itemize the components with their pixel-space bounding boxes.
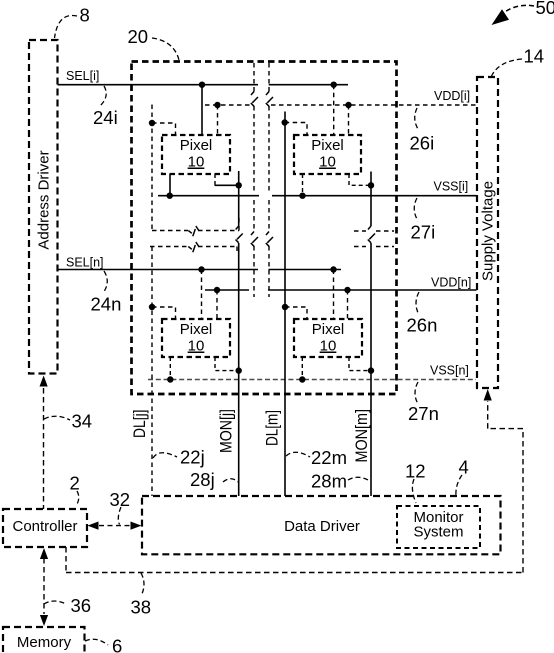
svg-text:36: 36 [71,595,92,616]
svg-text:28m: 28m [311,471,347,492]
label 20 leader [152,38,179,60]
row-break divider line lower [150,247,394,255]
address driver box 8 [29,40,58,374]
svg-text:Address Driver: Address Driver [36,150,53,249]
break symbol channel left lower [251,232,258,247]
break symbol MON[m] [368,226,375,243]
svg-text:Memory: Memory [17,634,72,651]
node VDD[n] pixel3 junction [214,287,220,293]
wire column-break channel left [253,63,255,297]
wire P4 MON elbow [349,357,371,371]
svg-text:DL[j]: DL[j] [131,410,149,439]
label 24n leader [103,271,107,293]
svg-text:14: 14 [524,46,545,67]
node VSS[n] pixel4 junction [299,376,305,382]
node DL[m] pixel4 junction [282,304,288,310]
node MON[j] pixel3 junction [236,367,242,373]
svg-text:34: 34 [72,411,93,432]
wire P4 SEL connector [333,270,335,320]
wire P4 VSS connector [301,357,303,380]
wire P2 MON elbow [349,174,371,185]
label 36 leader [44,601,66,604]
wire SEL[i] [58,84,349,86]
svg-text:System: System [413,524,463,541]
memory box 6 [3,627,85,653]
svg-text:Pixel: Pixel [311,137,344,154]
break symbol channel right upper [266,92,273,107]
svg-text:22j: 22j [180,447,205,468]
node SEL[n] pixel3 junction [198,266,204,272]
break symbol divider upper [188,226,199,236]
node SEL[i] pixel2 junction [331,82,337,88]
label 34 leader [44,416,70,420]
label 32 leader [118,507,121,525]
node VDD[i] pixel1 junction [214,102,220,108]
wire 36 controller-memory [40,548,48,626]
monitor system box 4 [397,506,480,548]
svg-text:Supply Voltage: Supply Voltage [480,181,497,281]
svg-text:8: 8 [80,5,90,26]
label 50 leader arrow [492,5,535,25]
wire 38 feedback path [66,401,523,573]
svg-text:DL[m]: DL[m] [264,410,282,446]
svg-text:6: 6 [112,636,122,653]
label 12 leader [412,479,416,503]
node VSS[i] pixel2 junction [299,193,305,199]
svg-text:24n: 24n [91,294,122,315]
wire 38 arrowhead into supply [484,389,492,401]
wire P3 VSS connector [169,357,171,380]
wire P2 VDD connector [348,105,350,135]
pixel P1 box [162,135,230,174]
wire 34 controller-address driver [40,376,48,510]
wire DL[m] column [284,112,286,497]
wire VDD[n] [205,289,477,291]
node MON[m] pixel4 junction [368,367,374,373]
pixel array box 20 [132,62,397,395]
label 27i leader [414,198,418,221]
wire P4 DL elbow [285,307,307,319]
break symbol channel left upper [251,92,258,107]
wire P3 SEL connector [201,270,203,320]
wire column-break channel right [268,63,270,297]
node SEL[i] pixel1 junction [199,82,205,88]
svg-text:10: 10 [320,338,337,355]
node DL[m] pixel2 junction [282,119,288,125]
wire MON[m] column [370,172,372,497]
label 38 leader [141,573,144,596]
svg-text:28j: 28j [190,469,215,490]
svg-text:22m: 22m [311,447,347,468]
svg-text:26i: 26i [410,133,435,154]
wire P3 VDD connector [216,290,218,319]
wire P1 MON elbow vertical [214,174,216,185]
wire P2 DL elbow [285,123,307,136]
svg-text:VDD[n]: VDD[n] [431,276,471,290]
node VSS[n] pixel3 junction [167,376,173,382]
svg-text:50: 50 [536,0,554,18]
svg-text:Data Driver: Data Driver [284,518,360,535]
data driver box 12 [142,496,501,554]
break symbol divider lower [188,242,199,252]
wire P3 MON elbow [215,357,239,371]
wire P1 MON elbow horizontal [215,184,239,186]
wire P4 VDD connector [347,290,349,319]
wire VDD[i] [205,104,477,106]
controller box 2 [3,509,87,547]
node VSS[i] pixel1 junction [167,193,173,199]
label 28m leader [348,477,370,481]
node MON[j] pixel1 junction [236,182,242,188]
wire SEL[n] [58,269,342,271]
wire P2 VSS connector [302,174,304,196]
svg-text:SEL[n]: SEL[n] [66,256,104,270]
node MON[m] pixel2 junction [368,182,374,188]
node DL[j] pixel3 junction [149,304,155,310]
wire 32 bidirectional arrow [88,522,142,530]
wire P1 VDD connector [217,105,219,135]
wire P1 VSS connector [169,174,171,196]
svg-text:38: 38 [131,597,152,618]
pixel P3 box [162,319,230,357]
label 2 leader [76,491,79,506]
label 26n leader [416,292,419,315]
svg-text:10: 10 [188,338,205,355]
svg-text:26n: 26n [407,315,438,336]
svg-text:10: 10 [319,154,336,171]
wire MON[j] column [238,171,240,496]
wire P1 SEL connector [201,85,203,135]
pixel P4 box [294,319,362,357]
node DL[j] pixel1 junction [149,120,155,126]
svg-text:VSS[i]: VSS[i] [434,180,469,194]
svg-text:SEL[i]: SEL[i] [66,69,99,83]
svg-text:20: 20 [128,26,149,47]
break symbol MON[j] [236,226,243,243]
label 27n leader [415,382,418,404]
label 22j leader [153,453,177,458]
break symbol channel right lower [266,232,273,247]
svg-text:Pixel: Pixel [312,321,345,338]
wire VSS[i] [158,195,477,197]
label 14 leader [492,59,523,76]
row-break divider line upper [152,216,394,232]
wire VSS[n] [148,379,476,381]
node VDD[n] pixel4 junction [344,287,350,293]
label 28j leader [223,479,238,482]
wire P3 DL elbow [152,307,176,319]
svg-text:4: 4 [459,457,469,478]
svg-text:27i: 27i [411,222,436,243]
svg-text:MON[m]: MON[m] [353,409,371,463]
label 24i leader [100,86,106,106]
svg-text:32: 32 [110,489,131,510]
node SEL[n] pixel4 junction [330,266,336,272]
svg-text:VSS[n]: VSS[n] [430,364,469,378]
wire P1 DL elbow [152,123,176,135]
wire P2 SEL connector [333,85,335,135]
node VDD[i] pixel2 junction [345,102,351,108]
svg-text:Pixel: Pixel [180,137,213,154]
svg-text:27n: 27n [408,403,439,424]
svg-text:12: 12 [405,461,426,482]
svg-text:MON[j]: MON[j] [218,409,236,453]
svg-text:VDD[i]: VDD[i] [434,89,470,103]
supply voltage box 14 [477,77,498,388]
svg-text:2: 2 [70,473,80,494]
label 4 leader [456,475,462,497]
label 6 leader [85,639,108,645]
pixel P2 box [294,135,361,174]
svg-text:10: 10 [188,154,205,171]
svg-text:24i: 24i [93,107,118,128]
svg-text:Controller: Controller [12,518,77,535]
label 8 leader [55,15,78,38]
label 22m leader [286,452,310,457]
wire DL[j] dashed column [151,105,153,497]
label 26i leader [415,108,418,129]
svg-text:Pixel: Pixel [180,321,213,338]
